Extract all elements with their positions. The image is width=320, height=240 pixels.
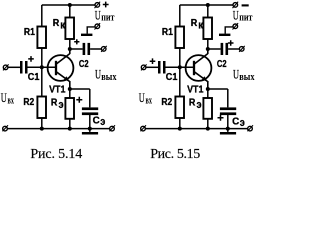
svg-text:вых: вых	[239, 71, 255, 83]
svg-text:R1: R1	[24, 27, 35, 38]
svg-text:C1: C1	[166, 72, 178, 83]
svg-text:U: U	[139, 91, 145, 105]
svg-text:R: R	[53, 18, 60, 29]
svg-text:R: R	[191, 18, 198, 29]
svg-text:R: R	[189, 97, 196, 108]
svg-text:вых: вых	[101, 71, 117, 83]
svg-text:U: U	[1, 91, 7, 105]
svg-text:э: э	[100, 116, 105, 128]
svg-text:R1: R1	[162, 27, 173, 38]
svg-text:C2: C2	[79, 59, 89, 70]
svg-text:C: C	[232, 117, 239, 128]
svg-text:VT1: VT1	[49, 85, 66, 96]
svg-text:C1: C1	[28, 72, 40, 83]
svg-text:U: U	[233, 8, 239, 22]
svg-text:к: к	[60, 20, 65, 32]
svg-text:C: C	[93, 116, 100, 127]
svg-text:U: U	[233, 68, 239, 82]
svg-text:вх: вх	[146, 95, 153, 107]
svg-text:э: э	[240, 117, 245, 129]
svg-text:Рис. 5.15: Рис. 5.15	[150, 147, 200, 162]
svg-text:C2: C2	[217, 59, 227, 70]
svg-text:U: U	[95, 8, 101, 22]
svg-text:U: U	[95, 68, 101, 82]
svg-text:R2: R2	[23, 97, 34, 108]
svg-text:э: э	[59, 99, 64, 111]
svg-text:к: к	[198, 20, 203, 32]
svg-text:вх: вх	[8, 95, 15, 107]
svg-text:пит: пит	[239, 11, 253, 23]
svg-text:пит: пит	[101, 11, 115, 23]
svg-text:VT1: VT1	[187, 85, 204, 96]
svg-text:э: э	[197, 99, 202, 111]
svg-text:R2: R2	[161, 97, 172, 108]
svg-text:Рис. 5.14: Рис. 5.14	[30, 147, 82, 162]
svg-text:R: R	[51, 97, 58, 108]
